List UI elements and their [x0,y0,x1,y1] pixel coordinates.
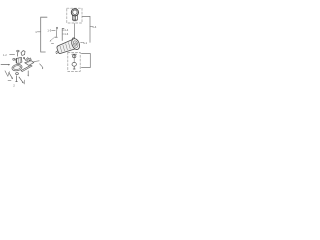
filter stem line [73,58,75,62]
arrow left-down [9,72,13,78]
plate inner line [26,61,31,63]
top screw of left cluster [17,50,19,56]
dashed detail box A (primer bulb) [67,8,82,23]
diaphragm lever [21,65,32,71]
gasket ring [11,64,22,72]
wing bracket part [21,51,25,56]
bottom bolt [16,73,19,82]
label 1 tick [37,31,40,33]
leader from pin down-left [50,37,55,41]
leader 1-2 tick [10,53,15,55]
filter element part [72,62,76,69]
arrowhead [22,82,24,84]
small valve parts cluster [23,57,31,60]
leader right-down [19,77,23,83]
filter cap part [72,54,77,58]
arrowhead [11,77,13,79]
svg-text:1-4: 1-4 [64,28,68,32]
long arrow leader lower-left [1,63,9,65]
plate edge line [34,60,39,63]
pin part [55,27,57,37]
bolt left of cup [13,58,16,60]
label 1-4 tick [62,29,64,31]
label 5-1 tick [81,42,83,44]
bulb barrel [72,16,77,21]
pump cup body [16,57,22,63]
bent leader right of plate [40,64,42,67]
step leader for labels 1-4/1-6 [62,29,64,41]
label tick below [51,42,53,44]
leader tick with arrow [42,67,44,69]
pump barrel body [57,40,76,54]
flange top nub [72,38,75,40]
cover plate [25,60,34,65]
svg-text:1-6: 1-6 [64,32,68,36]
background [0,0,98,98]
bulb ring outer [71,9,78,16]
leader down mid [27,71,29,76]
label 1-3 tick [52,29,56,31]
tick at leader end [24,80,26,84]
lower-left V arrow [5,71,9,77]
svg-text:5-4: 5-4 [92,25,96,29]
flange ellipse [70,37,81,50]
svg-text:1-2: 1-2 [3,53,7,57]
arrowhead [50,40,52,41]
arrowhead [28,75,29,77]
bulb ring inner [73,10,77,14]
bracket right of box B [81,54,90,68]
label 1-6 tick [62,33,64,35]
leader from box A down to pump flange [74,24,76,39]
barrel hatching [60,43,70,52]
tick under arrow [8,80,11,82]
big group bracket (left) [41,17,47,52]
arrowhead [8,64,10,66]
gasket hatch [13,66,21,69]
barrel nipple [56,51,59,54]
arrowhead [42,68,43,70]
svg-text:5-1: 5-1 [83,41,87,45]
step leader bracket right of box A [82,16,90,42]
label 5-4 tick [90,26,92,28]
svg-text:1-3: 1-3 [47,28,51,32]
dashed detail box B (filter) [68,52,80,71]
